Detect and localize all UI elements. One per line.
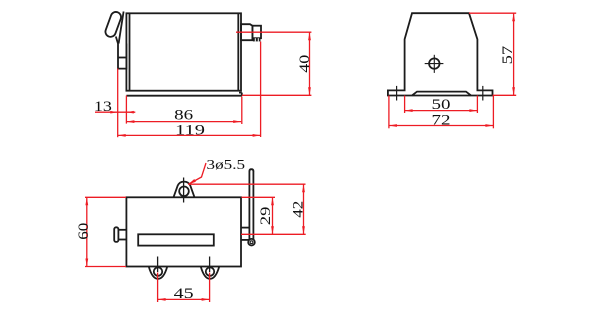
svg-text:57: 57 [500, 45, 516, 64]
svg-text:72: 72 [432, 112, 451, 128]
svg-text:119: 119 [175, 123, 205, 139]
svg-text:60: 60 [76, 223, 92, 240]
svg-text:3ø5.5: 3ø5.5 [207, 158, 246, 173]
svg-text:50: 50 [432, 97, 451, 113]
svg-text:45: 45 [174, 286, 194, 302]
svg-text:40: 40 [297, 55, 313, 73]
svg-text:42: 42 [291, 201, 307, 218]
svg-text:29: 29 [258, 207, 274, 226]
svg-text:86: 86 [174, 108, 194, 124]
svg-text:13: 13 [94, 99, 112, 115]
